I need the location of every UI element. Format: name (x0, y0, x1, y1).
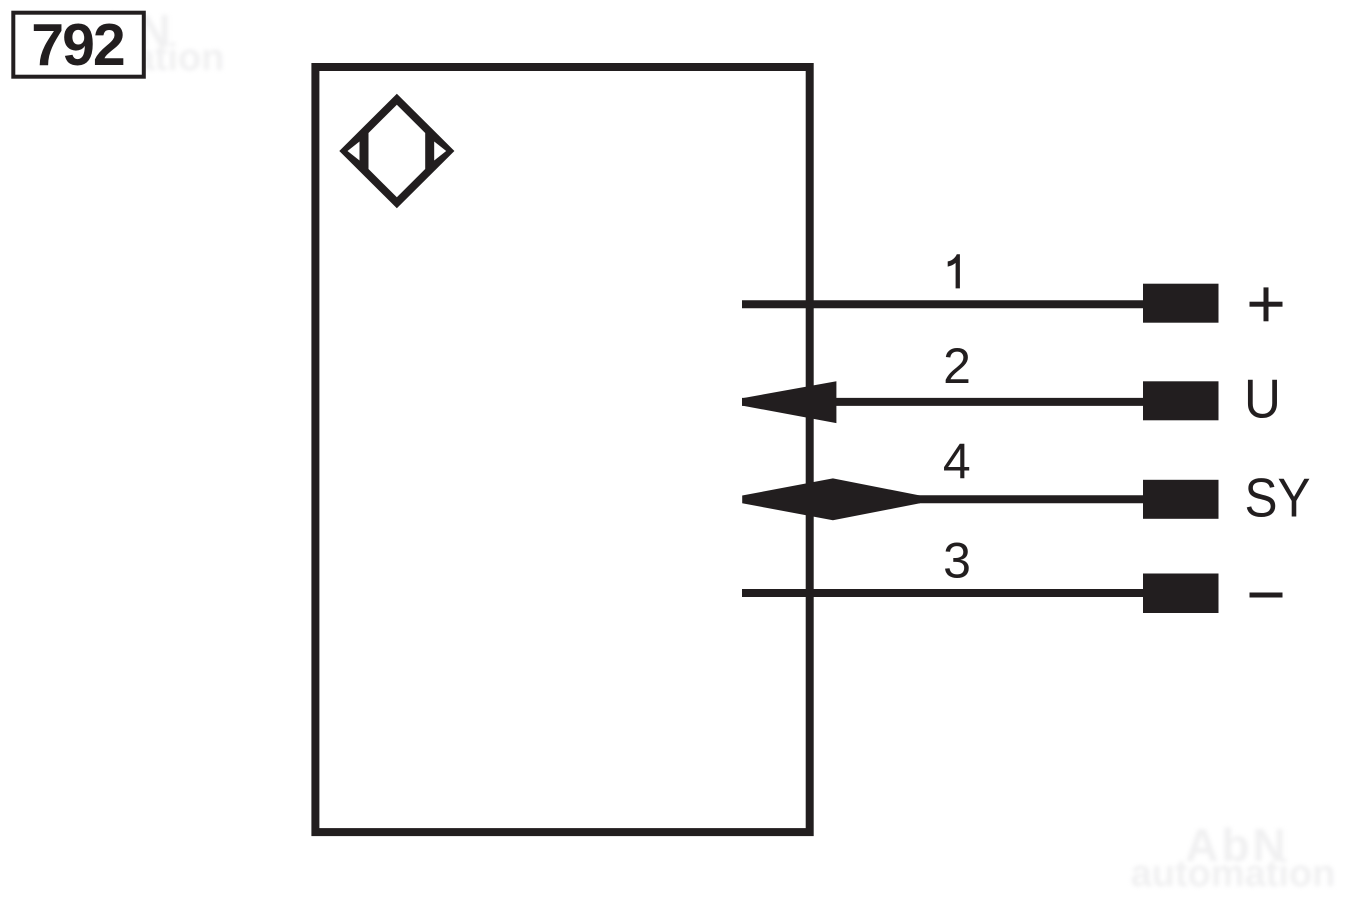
svg-text:2: 2 (943, 338, 971, 394)
svg-text:SY: SY (1245, 468, 1311, 529)
svg-text:3: 3 (943, 533, 971, 589)
svg-text:U: U (1244, 369, 1281, 430)
svg-text:4: 4 (943, 434, 971, 490)
svg-text:792: 792 (31, 12, 124, 78)
svg-text:automation: automation (1131, 853, 1336, 895)
